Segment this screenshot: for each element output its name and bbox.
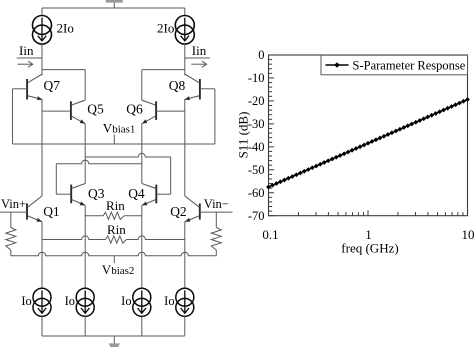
current source Io #4 [176,288,194,316]
wire: ground stub [113,336,115,343]
wire: Q3 emitter vertical [84,205,86,288]
wire: Vbias2 rail [11,252,217,256]
ground symbol [109,343,120,347]
svg-text:Vbias2: Vbias2 [102,262,135,277]
transistor Q5 [71,100,104,124]
data series markers [266,97,470,189]
x-axis ticks [269,210,468,216]
resistor (Vin- bias) [211,228,221,251]
current source 2Io (right) [175,16,194,45]
wire: right resistor top lead [215,212,217,227]
svg-text:0.1: 0.1 [262,227,278,242]
wire: VDD stub [113,3,115,8]
wire: Iin stub right [185,57,210,59]
wire: Q5 base lead [42,110,71,112]
label Vin+ [1,197,26,211]
wire: left inner vertical (Q5 emitter to Q3 collector) [84,124,86,184]
svg-text:Q8: Q8 [169,78,186,93]
wire: Q7 base lead [13,88,28,90]
wire: Q8 base lead [200,88,215,90]
wire: left resistor top lead [10,212,12,227]
x-axis tick labels [262,227,474,242]
current arrow Iin (right) [191,61,206,67]
current source Io #2 [76,288,94,316]
svg-text:Rin: Rin [106,198,125,213]
current source Io #3 [133,288,151,316]
label 2Io (left) [57,21,74,36]
wire: Io source #4 bottom lead [184,316,186,336]
wire: right source bottom lead [184,44,186,75]
resistor Rin (lower, between Q1/Q2 emitters) [42,236,185,243]
wire: right collector branch [142,69,185,71]
svg-text:10: 10 [462,227,474,242]
resistor (Vin+ bias) [6,228,16,251]
wire: Q2 base lead (Vin-) [200,211,233,213]
svg-text:Q7: Q7 [44,78,61,93]
wire: Io source #3 bottom lead [141,316,143,336]
svg-text:0: 0 [258,48,264,62]
svg-text:Io: Io [21,294,31,308]
wire: top rail [42,7,185,9]
wire: right main vertical (Q8 emitter to Q2 collector) [184,100,186,197]
svg-text:Rin: Rin [107,222,126,237]
transistor Q1 [27,196,60,222]
wire: left source top lead [41,8,43,16]
wire: left resistor bottom lead [10,250,12,256]
transistor Q8 [169,74,200,100]
wire: Vbias2 label stub [113,256,115,263]
transistor Q2 [170,196,200,222]
svg-text:Q3: Q3 [88,186,105,201]
wire: cross line B (Q4 collector node to Q3 base) [56,160,142,194]
svg-text:Q2: Q2 [170,204,187,219]
data series line (S-Parameter Response) [269,100,468,188]
power supply bar (VDD) [106,0,123,3]
svg-text:Vbias1: Vbias1 [103,121,136,136]
label Io #4 [164,294,174,308]
current source 2Io (left) [33,16,52,45]
wire: Vbias1 rail [13,143,215,145]
svg-text:-10: -10 [248,71,265,85]
transistor Q7 [27,74,60,100]
legend box [321,55,468,75]
svg-text:Io: Io [65,294,75,308]
transistor Q3 [71,184,105,206]
wire: Q4 emitter vertical [141,205,143,288]
svg-text:Vin+: Vin+ [1,197,26,211]
svg-text:Q6: Q6 [126,102,143,117]
wire: left main vertical (Q7 emitter to Q1 collector) [41,100,43,197]
wire: Q5 collector riser [84,70,86,101]
current source Io #1 [33,288,51,316]
svg-text:-60: -60 [248,186,265,200]
label Io #1 [21,294,31,308]
wire: bottom rail [42,335,185,337]
wire: Q7 base to Vbias1 rail (left drop) [12,89,14,144]
wire: Vbias1 label stub [113,135,115,145]
svg-text:Io: Io [164,294,174,308]
svg-text:freq (GHz): freq (GHz) [341,241,398,256]
label Rin (lower) [107,222,126,237]
label Iin (right) [192,43,207,58]
svg-text:Q5: Q5 [87,102,104,117]
resistor Rin (upper, between Q3/Q4 emitters) [85,212,142,219]
chart frame [269,55,468,216]
label Vbias1 [103,121,136,136]
svg-text:S-Parameter Response: S-Parameter Response [353,58,466,72]
y-axis ticks [269,55,275,216]
wire: Q8 base to Vbias1 rail (right drop) [214,89,216,144]
label Vbias2 [102,262,135,277]
wire: Io source #1 bottom lead [41,316,43,336]
wire: Iin stub left [17,57,42,59]
wire: cross line A (Q3 collector node to Q4 base) [85,153,171,194]
label Io #2 [65,294,75,308]
y-axis tick labels [248,48,265,223]
legend sample line [326,62,349,68]
label Io #3 [121,294,131,308]
current arrow Iin (left) [18,61,33,67]
y-axis title S11 (dB) [236,112,251,159]
wire: left source bottom lead [41,44,43,75]
wire: right resistor bottom lead [215,250,217,256]
label Iin (left) [19,43,34,58]
svg-text:-70: -70 [248,209,265,223]
svg-text:-20: -20 [248,94,265,108]
legend text [353,58,466,72]
transistor Q4 [128,184,156,206]
svg-text:2Io: 2Io [157,21,174,36]
wire: right inner vertical (Q6 emitter to Q4 collector) [141,124,143,184]
x-axis title freq (GHz) [341,241,398,256]
wire: Q6 base lead [156,110,185,112]
svg-text:Q1: Q1 [43,204,60,219]
wire: Q2 emitter vertical [184,222,186,289]
wire: Io source #2 bottom lead [84,316,86,336]
label Rin (upper) [106,198,125,213]
wire: Q6 collector riser [141,70,143,101]
svg-text:Vin−: Vin− [204,197,229,211]
wire: Q1 emitter vertical [41,222,43,289]
svg-text:2Io: 2Io [57,21,74,36]
svg-text:S11 (dB): S11 (dB) [236,112,251,159]
label Vin- [204,197,229,211]
svg-text:Iin: Iin [19,43,34,58]
transistor Q6 [126,100,156,124]
wire: Q1 base lead (Vin+) [0,211,27,213]
label 2Io (right) [157,21,174,36]
svg-text:Q4: Q4 [128,186,145,201]
wire: right source top lead [184,8,186,16]
svg-text:-50: -50 [248,163,265,177]
svg-text:Iin: Iin [192,43,207,58]
wire: left collector branch [42,69,85,71]
svg-text:Io: Io [121,294,131,308]
